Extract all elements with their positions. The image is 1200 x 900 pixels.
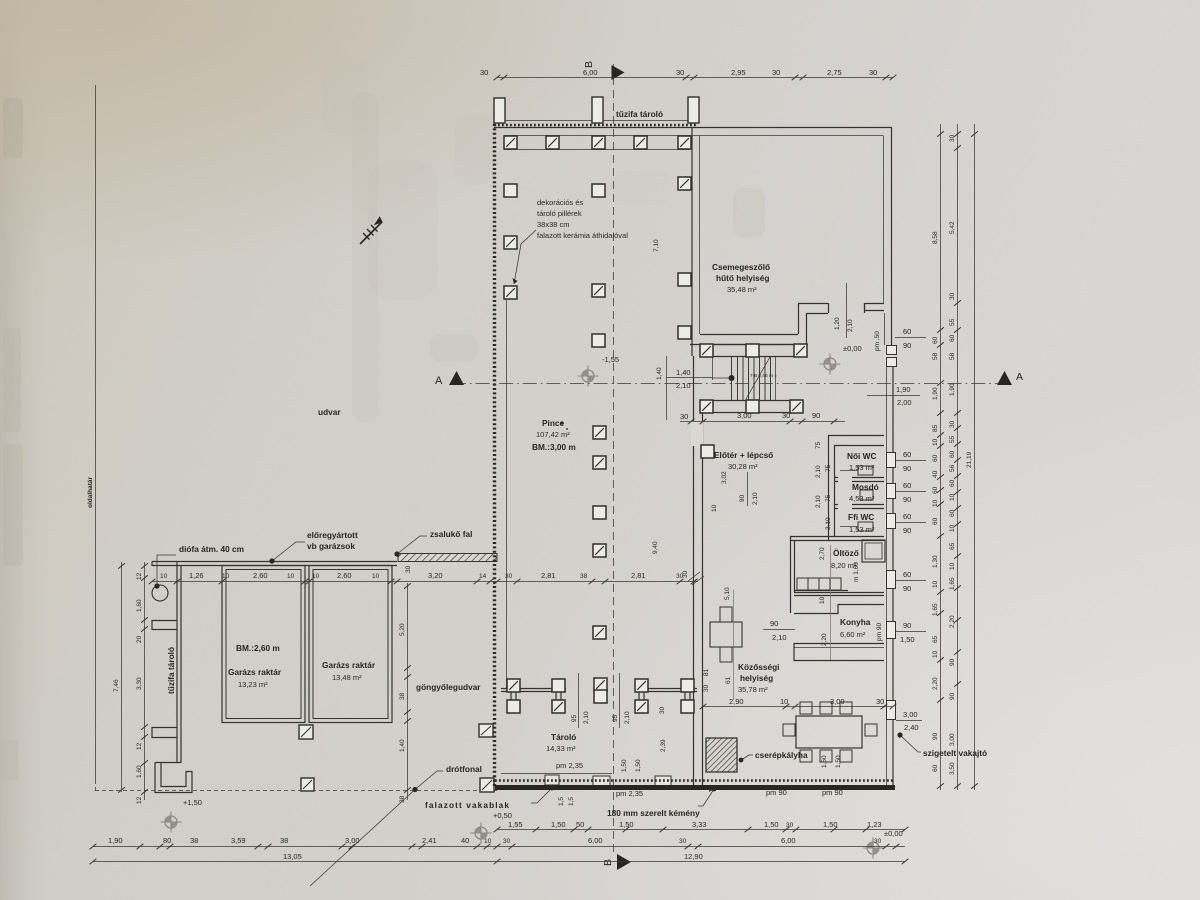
bottom chain row C 12,90 [497,861,905,863]
survey point at entry [820,354,841,375]
stair band lower lines [713,401,790,413]
projection line light vertical kozossegi [733,590,735,700]
garage room 1 outer wall [222,566,305,723]
Oltozo / Konyha partition [794,593,884,596]
garage east chain [407,583,409,800]
survey point +0,50 [471,823,492,844]
door dim 95/2,10 right [619,673,621,728]
door dim 95/2,10 left [578,673,580,728]
right chain 3 total [974,124,976,790]
Eloter west wall door gap and pillar [691,421,703,446]
center column pillars [592,184,605,197]
survey point +1,50 [161,812,182,833]
bottom chain row B [93,846,905,848]
dining table [796,716,862,748]
Csemegeszolo south wall step [799,303,807,344]
east colonnade wall line lower [694,356,703,786]
door axis line 1,20/2,10 [846,283,848,338]
stair start dot [729,375,735,381]
Konyha partition lower with jog [794,605,884,614]
garage room 2 inner wall [313,570,388,719]
Csemegeszolo east wall outer [891,128,893,346]
chairs bottom [800,750,812,762]
chair right [865,724,877,736]
shower tray [862,540,885,562]
tuzifa lean-to west wall [177,562,181,764]
pillar R1C2 [546,136,559,149]
pillar between garages [299,725,313,739]
pillar R1C5 [678,136,691,149]
Kozossegi small table [710,622,742,647]
Tarolo pillar cluster west [507,679,520,692]
fence post on boundary lower [480,778,494,792]
stair walk line [746,357,770,399]
pillar row top: R1C1 [504,136,517,149]
window gaps lower east wall [885,452,895,468]
leader eloregyartott vb garazsok [272,542,305,561]
leader to pillar [514,230,536,284]
cserepkalyha hatched stove [706,738,737,772]
survey point near garage axis [578,366,599,387]
bottom chain row A [497,829,905,831]
colonnade west edge dotted heavy line [493,124,496,786]
tuzifa stub top [151,562,153,567]
partition Noi WC / Mosdo [834,478,884,482]
WC top wall [828,436,884,446]
tuzifa stub mid [152,621,177,630]
west column pillars [504,184,517,197]
fence post at garage corner [301,778,314,791]
section marker B bottom [617,854,631,870]
bottom chain row C 13,05 [93,861,497,863]
door jamb right segment [829,303,865,313]
leader zsaluko fal [397,536,427,554]
section line A-A [452,383,1005,385]
leader falazott vakablak [531,788,552,803]
window gap in east wall top [885,345,895,367]
partition Mosdo / Ffi WC [834,505,884,509]
tall pillar top-left [494,98,505,123]
leader szigetelt vakajto [900,735,921,752]
building top edge line [494,127,892,129]
Oltozo west wall [791,536,795,613]
Tarolo pillar pair [552,679,565,692]
stairwell side line [712,356,714,380]
Tarolo pillar center [594,678,607,691]
garage top dimension chain [152,581,698,583]
east wall of building lower part [892,367,894,786]
pillar R1C3 [592,136,605,149]
top dimension chain [497,77,893,79]
threshold notch 1 [545,775,559,785]
paper shading and bleed-through stains [0,56,765,780]
garage room 1 inner wall [226,570,301,719]
garage top wall double line [152,562,397,566]
chairs top [800,702,812,714]
section marker A left [449,371,464,385]
tall pillar top-right [688,97,699,123]
north arrow [360,217,382,244]
sink Mosdo [860,490,873,500]
pillar R1C4 [634,136,647,149]
top wall inner line over colonnade [504,149,690,151]
leader cserepkalyha [741,755,753,760]
ink speck [560,421,563,424]
chair left [783,724,795,736]
small table chair top [720,607,732,622]
tree trunk symbol diofa [152,585,168,601]
section marker B top [612,65,625,80]
Tarolo pillar east [635,679,648,692]
stair band upper lines [713,345,794,357]
left vertical chain total 7,46 [121,562,123,792]
right chain 1 [940,124,942,790]
fence dotted line above top wall [494,124,698,127]
section line B-B vertical [613,64,615,852]
right chain 2 [957,124,959,790]
small table chair bottom [720,647,732,662]
Csemegeszolo south wall right segment double [798,304,828,314]
leader diofa [157,555,176,586]
survey point bottom right [863,838,884,859]
tall pillar top-mid [592,97,603,123]
fence post on boundary [479,724,493,737]
stair row pillars upper [700,344,713,357]
stair treads [732,356,771,400]
toilet symbol Ffi WC [858,522,873,531]
garage room 2 outer wall [309,566,392,723]
leader 180mm szerelt kemeny [698,789,714,806]
drotfonal leader diagonal [310,771,443,886]
Csemegeszolo south wall left segment [690,335,806,345]
building bottom wall dotted band [495,779,895,782]
opening dim line 1,40 rot [666,356,668,420]
Csemegeszolo room west wall [691,128,693,357]
dim row under stairs 30 3,00 30 90 [680,421,845,423]
projection line light vertical konyha [830,545,832,660]
dim row 2,90 10 3,00 30 [703,706,893,708]
WC block west wall [829,435,835,540]
stair row pillars lower [700,400,713,413]
section marker A right [997,371,1012,385]
east column pillar 3 [678,326,691,339]
kitchen counter [794,643,884,661]
Tarolo south threshold line [501,773,612,775]
tuzifa bottom L-piece [155,763,192,793]
tuzifa stub lower [152,728,177,738]
east column pillar 1 [678,177,691,190]
Tarolo north wall [501,689,697,692]
paper grain [0,0,1,1]
threshold notch 2 [593,776,610,786]
partition Ffi WC / Oltozo [790,537,884,541]
left vertical chain detailed [144,562,146,800]
Tarolo pillar far east [681,679,694,692]
wall break marks on west wall [688,572,704,585]
threshold notch 3 [655,776,671,786]
building bottom wall thick [495,785,895,790]
east column pillar 2 [678,273,691,286]
door dim 90/2,10 eloter [747,472,749,506]
zsaluko fal hatched wall strip [398,554,497,562]
toilet symbol Noi WC [858,466,873,475]
stub wall right [865,303,885,311]
boundary dashed bottom segment [95,780,497,791]
lockers row [794,590,848,592]
property boundary line oldalhatar [95,85,97,780]
